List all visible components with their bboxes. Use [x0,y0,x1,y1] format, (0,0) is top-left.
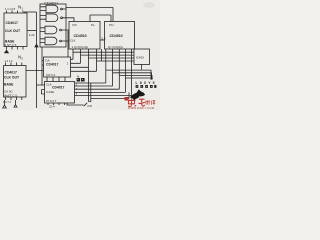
wire drop to label [84,52,86,77]
svg-text:2.2k: 2.2k [29,33,35,37]
svg-text:1 4 1 6 8: 1 4 1 6 8 [5,7,16,11]
IC A bottom drops into staircase [73,49,102,102]
wire IC A carry to IC B [100,39,105,41]
wire [24,11,37,13]
wire N1 out to vertical bus A [27,30,37,32]
svg-text:9T 9.2 T: 9T 9.2 T [46,99,57,103]
paper background [0,0,160,110]
svg-text:CLA: CLA [46,83,52,87]
staircase stubs to IC C pins [71,59,97,71]
ground below N1 pin1 [5,50,9,53]
decoder box [134,49,150,65]
IC D box CD4017 [45,82,75,104]
svg-text:BASE: BASE [4,82,14,86]
vertical wire A [36,12,38,108]
watermark bird [130,92,145,102]
IC N2 bottom pins [6,97,22,100]
svg-text:CD4017: CD4017 [5,71,18,75]
ground below N2 [3,100,7,108]
svg-text:WWW.DZDIY.COM: WWW.DZDIY.COM [128,106,154,110]
svg-text:CLK OUT: CLK OUT [5,29,21,33]
svg-text:IC450: IC450 [136,55,144,59]
IC N2 box [4,66,26,98]
svg-text:1 Q1Q2Q3Q4: 1 Q1Q2Q3Q4 [72,45,90,49]
IC D left pin wire [37,84,45,86]
gate G1 [40,5,66,13]
IC N1 box [4,13,27,47]
svg-text:CD4510: CD4510 [110,34,123,38]
vertical wire B [41,47,43,85]
gate box CD4011 [40,4,66,47]
IC N1 top pins [7,11,24,14]
bus rows lower from IC D [75,83,132,95]
gate G3 [40,26,66,34]
bird wing [136,89,142,93]
label wind direction chars [77,76,85,82]
IC D bottom pin ticks [48,103,65,105]
gate G2 [40,14,66,22]
speaker arrow [84,103,88,106]
wire G4 out to IC A clk [66,40,69,42]
svg-text:1 4 1 6: 1 4 1 6 [5,59,13,63]
IC B drops branch right [106,70,153,80]
watermark red char 1 (dian) [128,99,145,107]
IC B bottom drops [106,49,132,95]
svg-text:MuST C 5: MuST C 5 [4,93,18,97]
gate G4 [40,37,66,45]
watermark red mark [125,97,129,101]
labels [3,1,155,109]
IC C box CD4017 [44,57,71,77]
wire G1 out to counters top [66,8,113,22]
label block row2 squares [136,85,157,88]
svg-text:4.5t: 4.5t [87,104,92,108]
IC D left pin stubs [42,90,45,95]
svg-text:N2: N2 [18,55,23,61]
svg-text:N1: N1 [18,5,23,11]
bus rows upper to decoder [73,52,134,61]
svg-text:9.ASE: 9.ASE [46,90,54,94]
small arrow on wire A [35,44,38,47]
hairpin wire bottom [89,83,130,102]
svg-text:22-4: 22-4 [49,105,55,109]
IC C left pin stubs [42,61,44,66]
wire G2 out [66,18,74,22]
svg-text:CD4011: CD4011 [44,1,59,6]
svg-text:CD4017: CD4017 [6,21,19,25]
wire G3 out to IC C top [66,30,68,57]
svg-text:CLK OUT: CLK OUT [4,75,20,79]
watermark red char small (zhi zuo) [145,100,155,105]
IC N2 top pins [6,63,22,66]
svg-text:CD4510: CD4510 [74,34,87,38]
IC B box CD4510 [105,22,135,50]
svg-text:CLK: CLK [70,39,76,43]
wire N2 out to IC C [26,70,44,72]
svg-text:5,E: 5,E [102,37,106,41]
svg-text:9,R b 9: 9,R b 9 [46,73,55,77]
svg-text:1 9 7 4: 1 9 7 4 [3,100,11,104]
small arrow symbol [14,100,17,107]
svg-text:P/U: P/U [109,23,114,27]
IC N1 bottom pins [7,47,24,50]
svg-text:R.ST C 5: R.ST C 5 [4,43,17,47]
IC A box CD4510 [69,22,100,50]
wire IC D to speaker [67,103,84,105]
svg-text:P/U: P/U [73,23,78,27]
IC C bottom drops to IC D [47,77,65,82]
svg-text:Pe: Pe [91,23,95,27]
decoder bottom stub [141,65,143,70]
svg-text:CD4017: CD4017 [46,63,59,67]
